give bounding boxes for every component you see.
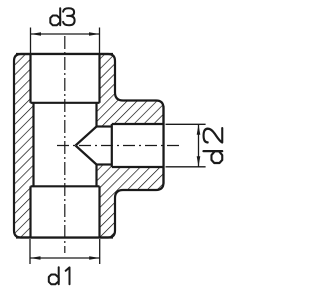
cone upper slant	[76, 127, 97, 146]
d1 left extension line	[29, 239, 31, 264]
bottom socket bore (white)	[31, 186, 100, 238]
branch socket shoulder	[111, 124, 113, 167]
d1 left arrow	[30, 256, 41, 260]
top socket bore (white)	[31, 53, 100, 103]
d2 bottom arrow	[197, 156, 201, 167]
d1 dimension line	[30, 257, 100, 259]
d2 label rotated letter d	[203, 151, 222, 163]
branch inner bore top edge	[97, 125, 112, 127]
main bore left wall	[32, 103, 34, 187]
top socket shoulder line	[31, 102, 100, 104]
cone lower slant	[76, 146, 97, 165]
d1 label digit 1	[66, 267, 70, 284]
d3 left extension line	[30, 28, 32, 54]
branch socket bore top edge	[112, 123, 164, 125]
d3 dimension line	[31, 33, 100, 35]
d3 label digit 3	[63, 8, 74, 25]
top face edge	[16, 53, 113, 55]
d2 label rotated digit 2	[204, 128, 223, 142]
main bore right wall upper segment	[95, 103, 97, 127]
bottom socket bore right wall	[98, 186, 100, 237]
branch end face edge	[162, 106, 164, 184]
vertical centerline	[64, 36, 66, 253]
d1 right extension line	[99, 239, 101, 264]
main bore right wall lower segment	[95, 165, 97, 187]
d3 right extension line	[99, 28, 101, 54]
d1 right arrow	[89, 256, 100, 260]
d2 top extension line	[166, 123, 206, 125]
top socket bore right wall	[98, 54, 100, 103]
top socket bore left wall	[29, 54, 31, 103]
bottom socket bore left wall	[29, 186, 31, 237]
d3 right arrow	[89, 32, 100, 36]
d1 label letter d	[49, 267, 59, 284]
d2 top arrow	[197, 124, 201, 135]
branch socket bore bottom edge	[112, 166, 164, 168]
d2 dimension line	[198, 124, 200, 167]
main bore (white)	[34, 103, 97, 187]
branch socket bore (white)	[112, 124, 165, 167]
bottom socket shoulder line	[31, 185, 100, 187]
branch inner bore and cone (white)	[76, 127, 112, 165]
d2 bottom extension line	[166, 166, 206, 168]
bottom face edge	[16, 236, 113, 238]
horizontal centerline	[57, 145, 179, 147]
branch inner bore bottom edge	[97, 163, 112, 165]
tee fitting body outline (section, hatched)	[14, 54, 164, 238]
d3 label letter d	[50, 8, 60, 25]
d3 left arrow	[31, 32, 42, 36]
